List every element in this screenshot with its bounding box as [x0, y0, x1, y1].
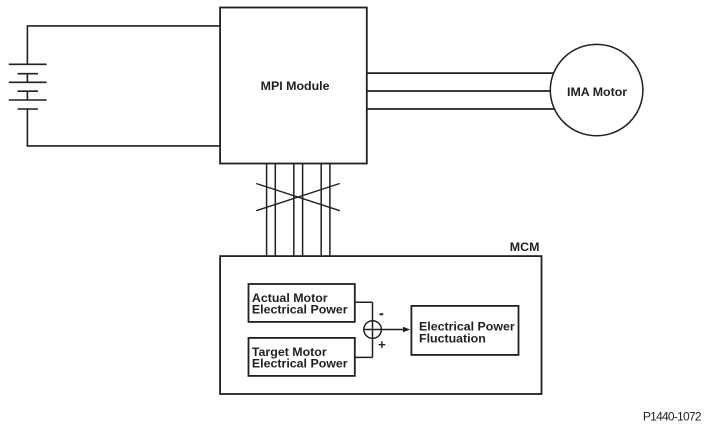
wire motor phase U: [367, 72, 556, 74]
svg-text:Electrical Power: Electrical Power: [252, 303, 348, 317]
harness cross mark (X) line 1: [256, 184, 340, 211]
box Actual Motor Electrical Power: [249, 284, 355, 322]
label minus sign: [380, 313, 384, 315]
summing junction horizontal bar: [364, 329, 382, 331]
harness wire 2: [274, 164, 276, 257]
svg-text:IMA Motor: IMA Motor: [567, 85, 627, 99]
box Electrical Power Fluctuation: [411, 306, 518, 355]
harness wire 1: [266, 164, 268, 257]
harness wire 3: [293, 164, 295, 257]
harness wire 6: [329, 164, 331, 257]
wire motor phase V: [367, 90, 556, 92]
wire from battery positive terminal to MPI Module (top): [27, 26, 220, 64]
svg-text:Electrical Power: Electrical Power: [252, 357, 348, 371]
harness cross mark (X) line 2: [256, 184, 340, 211]
MCM box: [220, 256, 541, 394]
svg-text:P1440-1072: P1440-1072: [643, 410, 702, 424]
svg-text:Fluctuation: Fluctuation: [419, 332, 486, 346]
svg-text:MPI Module: MPI Module: [261, 79, 330, 93]
box Target Motor Electrical Power: [249, 338, 355, 376]
wire summing junction to Electrical Power Fluctuation: [381, 329, 404, 331]
summing junction circle: [364, 321, 382, 339]
wire from battery negative terminal to MPI Module (bottom): [27, 109, 220, 146]
MPI Module box: [220, 8, 367, 164]
wire motor phase W: [367, 108, 556, 110]
summing junction vertical bar (wire through): [372, 302, 374, 357]
wire Actual Motor box to summing junction: [355, 301, 373, 303]
harness wire 4: [302, 164, 304, 257]
harness wire 5: [320, 164, 322, 257]
wire Target Motor box to summing junction: [355, 356, 373, 358]
svg-text:MCM: MCM: [510, 240, 540, 254]
svg-text:+: +: [378, 337, 386, 352]
motor IMA (circle): [550, 44, 643, 135]
arrowhead: [403, 327, 410, 332]
battery (multi-cell): [9, 64, 47, 109]
